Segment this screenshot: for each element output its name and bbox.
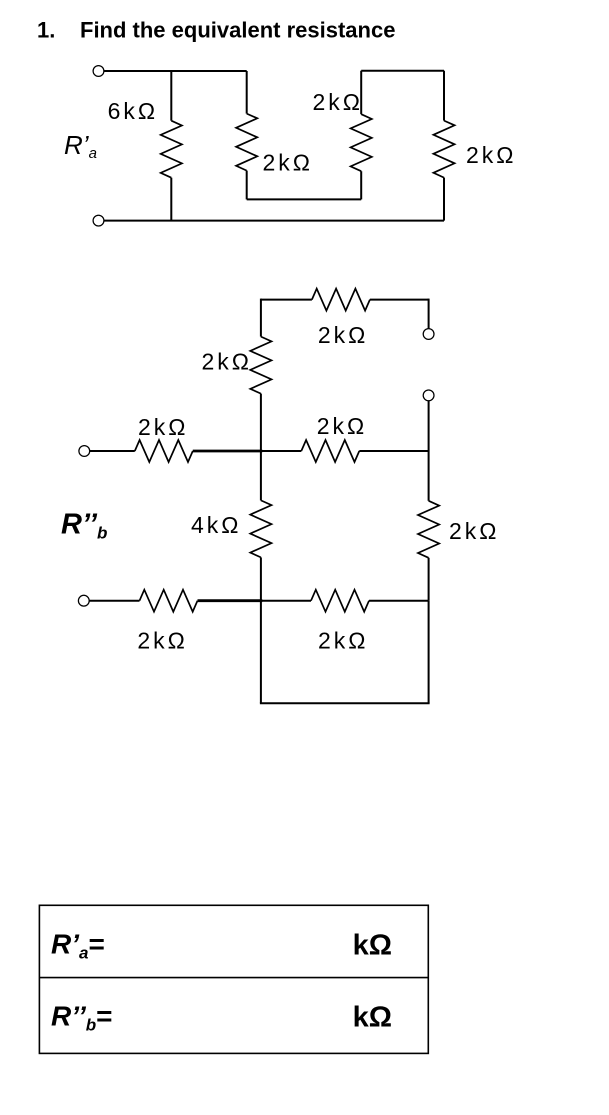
label 2kOhm for R7: [138, 414, 189, 440]
wire: connector between R2 bottom and R3 bottom: [247, 198, 362, 200]
wire: T6 to R11: [89, 600, 139, 602]
wire: circuit2 top-left vertical corner segment: [260, 299, 262, 337]
resistor R2 2kOhm second vertical branch: [236, 71, 257, 199]
wire: bottom rail of circuit 1: [104, 220, 444, 222]
svg-text:R’’b=: R’’b=: [51, 1001, 113, 1035]
wire: row2 center junction to R12: [261, 600, 311, 602]
label R'a (circuit 1 name): [64, 130, 97, 162]
wire: center junction to R8: [261, 450, 301, 452]
svg-text:kΩ: kΩ: [353, 929, 392, 961]
wire: circuit2 top rail left part: [261, 299, 312, 301]
label 6kOhm: [108, 98, 159, 124]
label 2kOhm for R6: [202, 349, 253, 375]
terminal top-left of R'a network: [93, 66, 104, 77]
svg-text:4kΩ: 4kΩ: [191, 512, 242, 538]
svg-text:2kΩ: 2kΩ: [317, 413, 368, 439]
terminal T4 (circuit2 middle-left): [79, 446, 90, 457]
resistor R7 2kOhm horizontal row1 left: [135, 440, 193, 462]
wire: T4 to R7: [90, 450, 135, 452]
svg-text:Find the equivalent resistance: Find the equivalent resistance: [80, 18, 395, 43]
svg-text:2kΩ: 2kΩ: [318, 322, 369, 348]
wire: R7 to center junction (bold): [193, 450, 262, 453]
wire: down to terminal T3: [428, 299, 430, 329]
label 2kOhm for R3: [313, 89, 364, 115]
resistor R8 2kOhm horizontal row1 right: [301, 440, 359, 462]
svg-text:2kΩ: 2kΩ: [263, 150, 314, 176]
resistor R12 2kOhm horizontal row2 right: [311, 590, 369, 612]
wire: R11 to center junction row2 (bold): [198, 599, 263, 602]
svg-text:2kΩ: 2kΩ: [449, 518, 500, 544]
wire: circuit2 top rail right part: [370, 299, 429, 301]
svg-text:2kΩ: 2kΩ: [318, 628, 369, 654]
resistor R1 6kOhm vertical branch: [161, 71, 182, 221]
terminal T6 (circuit2 lower-left): [78, 595, 89, 606]
label 2kOhm for R11: [137, 628, 188, 654]
terminal bottom-left of R'a network: [93, 215, 104, 226]
svg-text:2kΩ: 2kΩ: [137, 628, 188, 654]
label 2kOhm for R10: [449, 518, 500, 544]
terminal T5 (circuit2 right, above row1): [423, 390, 434, 401]
resistor R5 2kOhm horizontal top: [312, 289, 370, 311]
svg-text:2kΩ: 2kΩ: [466, 142, 517, 168]
label R''b (circuit 2 name): [61, 509, 107, 543]
resistor R9 4kOhm vertical center: [250, 451, 271, 601]
wire: circuit2 bottom rail: [260, 702, 430, 704]
wire: center vertical below row2: [260, 601, 262, 704]
svg-text:6kΩ: 6kΩ: [108, 98, 159, 124]
resistor R11 2kOhm horizontal row2 left: [140, 590, 198, 612]
answer table frame: [39, 905, 428, 1053]
terminal T3 (circuit2 upper right): [423, 329, 434, 340]
resistor R6 2kOhm vertical upper-middle: [250, 337, 271, 451]
wire: top rail from terminal to R2 top: [104, 70, 247, 72]
svg-text:1.: 1.: [37, 18, 55, 43]
wire: R12 to right rail row2: [369, 600, 429, 602]
label 2kOhm for R8: [317, 413, 368, 439]
label 2kOhm for R4: [466, 142, 517, 168]
svg-text:kΩ: kΩ: [353, 1002, 392, 1034]
wire: right vertical below row2: [428, 601, 430, 704]
label 2kOhm for R12: [318, 628, 369, 654]
heading: problem title: [37, 18, 395, 43]
wire: T5 down to row1 junction: [428, 401, 430, 451]
svg-text:R’a=: R’a=: [51, 928, 105, 962]
label 4kOhm for R9: [191, 512, 242, 538]
svg-text:2kΩ: 2kΩ: [202, 349, 253, 375]
label 2kOhm for R2: [263, 150, 314, 176]
label 2kOhm for R5: [318, 322, 369, 348]
svg-text:2kΩ: 2kΩ: [138, 414, 189, 440]
resistor R3 2kOhm third vertical branch: [351, 71, 372, 200]
table row 2: R''b= answer: [51, 1001, 392, 1035]
wire: R8 to right junction: [359, 450, 428, 452]
resistor R10 2kOhm vertical right: [418, 451, 439, 601]
svg-text:2kΩ: 2kΩ: [313, 89, 364, 115]
table row 1: R'a= answer: [51, 928, 392, 962]
wire: top connector between R3 top and R4 top: [361, 70, 444, 72]
resistor R4 2kOhm rightmost vertical branch: [433, 71, 454, 221]
